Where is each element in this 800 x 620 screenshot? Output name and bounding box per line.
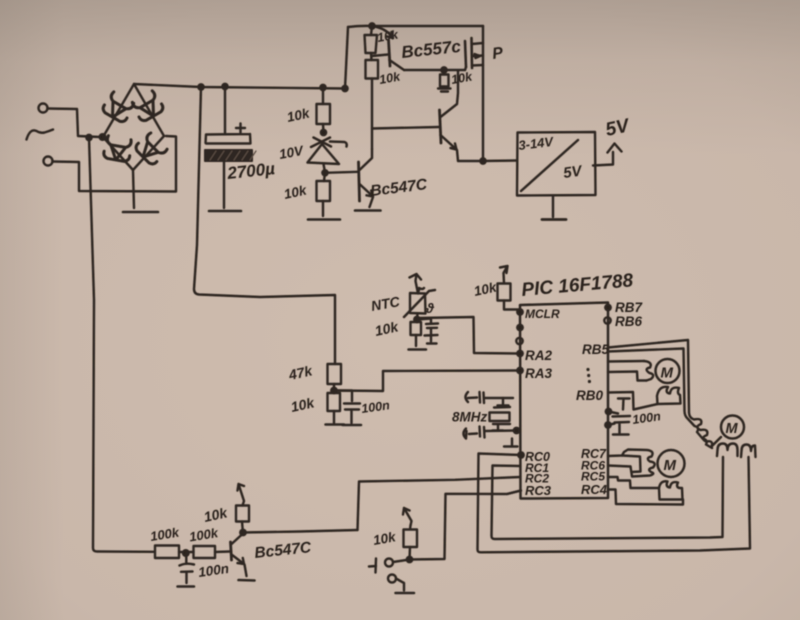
bridge diode D2 (top-right edge) bbox=[131, 90, 165, 123]
pin MCLR dot bbox=[517, 309, 522, 314]
wire terminal a2 to ground bbox=[396, 579, 404, 591]
wire up from rail x345 to BC557 rail bbox=[345, 27, 348, 89]
wire AC top to bridge left bbox=[48, 109, 101, 138]
wire Rb down long vertical bbox=[371, 79, 373, 150]
motor M2 letter bbox=[726, 421, 739, 437]
pin RA3 dot bbox=[517, 368, 522, 373]
pin label MCLR bbox=[525, 307, 560, 321]
pin label RB7 bbox=[615, 300, 643, 315]
label 10k Ra bbox=[376, 27, 400, 45]
label 10k Q4 pullup bbox=[202, 504, 229, 525]
label 100n bottom bbox=[197, 561, 230, 580]
wire 100k to Q4 base bbox=[215, 550, 230, 553]
ground bar under 100n bottom bbox=[178, 585, 195, 588]
label Bc547C bottom bbox=[254, 539, 313, 562]
svg-text:RB6: RB6 bbox=[615, 314, 642, 329]
svg-text:RB0: RB0 bbox=[576, 388, 603, 403]
capacitor 100n right plates bbox=[608, 412, 630, 434]
pin label RB0 bbox=[576, 388, 603, 403]
crystal X1 body bbox=[490, 407, 511, 424]
mosfet P channel bar bbox=[470, 38, 473, 68]
junction dot top rail at x323 bbox=[320, 85, 325, 90]
regulator U2 box 3-14V to 5V bbox=[517, 132, 596, 196]
wire RC2 to Q4 collector bbox=[358, 477, 521, 530]
capacitor C1 wire to ground bbox=[223, 161, 225, 208]
label 8MHz bbox=[452, 410, 488, 425]
wire RC6 to coil L3 bbox=[608, 466, 631, 467]
ground bar under 10k divider bbox=[326, 423, 345, 426]
resistor 10k (zener chain bottom) body bbox=[317, 181, 331, 201]
label 3-14V bbox=[518, 134, 556, 153]
wire between 100k resistors bbox=[179, 551, 194, 553]
base tap wire zener node to BC547a bbox=[325, 172, 358, 173]
wire 47k to node bbox=[333, 384, 335, 391]
motor M2 terminal bumps right bbox=[741, 445, 756, 458]
wire NTC node to RA2 bbox=[419, 317, 517, 354]
node junction bridge left vertex bbox=[100, 134, 106, 140]
label 100n right bbox=[631, 409, 662, 427]
junction dot top rail at x201 bbox=[198, 84, 203, 89]
pin label RB6 bbox=[615, 314, 642, 329]
transistor Q4 BC547C base bar bbox=[231, 542, 232, 560]
wire terminal a1 to node bbox=[393, 560, 410, 563]
wire RB5 outer loop to motor M2 bbox=[608, 340, 721, 447]
resistor 10k (NTC divider) body bbox=[411, 322, 422, 335]
svg-text:RC4: RC4 bbox=[581, 482, 608, 497]
pin label RC1 bbox=[525, 461, 549, 475]
NTC thermistor body bbox=[410, 290, 426, 314]
label 100n divider bbox=[360, 398, 391, 416]
resistor 10k Q4 pullup body bbox=[236, 506, 249, 522]
bridge rectifier diamond wires bbox=[103, 84, 164, 170]
transistor Q1 BC557 base bar bbox=[389, 40, 391, 66]
coil L1 bumps bbox=[644, 361, 653, 381]
ground bar under C1 bbox=[209, 210, 241, 213]
motor M3 letter bbox=[664, 457, 677, 474]
svg-text:RB7: RB7 bbox=[615, 300, 643, 315]
resistor 10k (47k divider) body bbox=[328, 393, 341, 411]
label Bc547C (left transistor) bbox=[369, 176, 428, 200]
label 47k bbox=[286, 362, 314, 383]
supply arrow above 10k Q4 bbox=[238, 484, 245, 506]
label NTC bbox=[370, 293, 402, 314]
wire inner loop to motor M2 bbox=[608, 349, 712, 449]
transistor Q3 base wire from x372 bbox=[372, 127, 439, 129]
transistor Q2 BC547C base bar bbox=[359, 162, 360, 201]
ground bar under 10k NTC bbox=[409, 348, 427, 351]
NTC supply arrow bbox=[410, 274, 425, 294]
pin label RC0 bbox=[525, 450, 550, 464]
capacitor C1 wire from rail bbox=[224, 87, 226, 134]
supply arrow above 10k bottom right bbox=[403, 508, 412, 526]
BC557 top rail bbox=[348, 26, 483, 27]
terminal circle a1 bbox=[385, 559, 393, 567]
label 100k R6 bbox=[149, 525, 181, 544]
wire Q4 collector to RC2 turn bbox=[243, 530, 358, 533]
resistor Ra 10k wire from rail bbox=[371, 26, 372, 35]
wire divider node to RA3 bbox=[334, 371, 517, 392]
crystal top T terminal bbox=[498, 398, 509, 406]
coil L2 bumps under M1 bbox=[657, 387, 681, 404]
pin dot left edge unconnected bbox=[517, 325, 522, 330]
label 10k zener chain bottom bbox=[283, 182, 310, 202]
junction dot right edge y411 bbox=[606, 409, 611, 414]
regulator output wire and 5V arrow bbox=[593, 144, 622, 166]
ground bar under bridge bbox=[123, 211, 158, 214]
crystal top capacitor ground hook bbox=[466, 392, 469, 402]
motor M2 circle bbox=[721, 416, 744, 439]
wire AC bottom to bridge right bbox=[53, 136, 177, 192]
transistor Q3 base bar bbox=[440, 110, 442, 143]
junction dot top rail at x345 bbox=[342, 86, 347, 91]
regulator diagonal bbox=[521, 140, 578, 191]
svg-text:ϑ: ϑ bbox=[425, 301, 435, 316]
pin label RC4 bbox=[581, 482, 608, 497]
mosfet P stubs with arrow bbox=[472, 43, 483, 66]
label 10V bbox=[278, 143, 305, 162]
zener diode wire down and node bbox=[322, 164, 327, 181]
mosfet P gate bar bbox=[465, 41, 466, 67]
motor M3 circle bbox=[658, 450, 685, 477]
transistor Q3 collector bbox=[441, 71, 459, 117]
svg-text:RA3: RA3 bbox=[525, 366, 552, 381]
capacitor C1 top plate bbox=[206, 134, 251, 144]
pin RC0 dot bbox=[518, 452, 523, 457]
junction dot right edge y425 bbox=[605, 422, 610, 427]
label 10k NTC bbox=[373, 318, 400, 339]
crystal bottom T terminal bbox=[493, 425, 504, 431]
label 100k R7 bbox=[188, 525, 220, 544]
capacitor C1 bottom plate (hatched) bbox=[205, 150, 256, 161]
resistor 10k MCLR pullup body bbox=[498, 284, 511, 301]
terminal circle a2 bbox=[388, 575, 396, 583]
junction dot between 100k resistors bbox=[183, 550, 189, 556]
transistor Q2 emitter with arrow bbox=[360, 184, 374, 207]
resistor 10k bottom right body bbox=[404, 526, 418, 548]
label Bc557c bbox=[400, 37, 462, 62]
ground bar under Q2 emitter bbox=[355, 209, 381, 212]
label 10k MCLR bbox=[473, 279, 500, 299]
transistor Q1 BC557 base wire bbox=[372, 55, 388, 57]
wire RC7 into coil L3 bbox=[608, 450, 655, 477]
motor M2 terminal bumps left bbox=[717, 444, 738, 457]
pin label RA2 bbox=[525, 348, 552, 363]
T terminal right of PIC bbox=[618, 399, 630, 410]
pin label RC5 bbox=[581, 470, 605, 484]
transistor Q3 emitter with arrow bbox=[441, 135, 484, 161]
wire node line y70 bbox=[404, 69, 465, 71]
label 10k Rb bbox=[378, 69, 402, 87]
resistor 100k R6 body bbox=[155, 546, 179, 559]
wire RC4 to coil L4 bbox=[608, 490, 683, 505]
capacitor 100n bottom stem and plates bbox=[180, 553, 195, 583]
pin label RA3 bbox=[525, 366, 552, 381]
terminal a1 tick marks bbox=[369, 559, 376, 573]
motor M1 circle bbox=[656, 359, 680, 383]
zener diode 10V cathode cross bar with hook bbox=[311, 138, 347, 148]
resistor 100k R7 body bbox=[194, 546, 216, 558]
ground bar under zener chain bbox=[308, 218, 340, 221]
label theta bbox=[425, 301, 435, 316]
bridge diode D3 (bottom-left edge) bbox=[103, 135, 133, 162]
crystal bottom capacitor hook and plates bbox=[464, 427, 517, 439]
regulator ground wire bbox=[552, 196, 554, 217]
wire MCLR pullup to pin bbox=[504, 301, 520, 310]
wire 10k bottom to node bbox=[408, 547, 411, 560]
ground bar under regulator bbox=[542, 218, 566, 221]
capacitor C1 plus sign bbox=[236, 124, 245, 133]
label P bbox=[491, 45, 504, 63]
AC terminal bottom circle bbox=[44, 157, 53, 166]
NTC wire to node bbox=[416, 314, 419, 321]
junction dot under NTC bbox=[414, 317, 419, 322]
ground bar under Q4 emitter bbox=[239, 579, 255, 582]
wire RC5 to coil L4 bbox=[608, 477, 659, 488]
pin label RB5 bbox=[582, 342, 609, 357]
label 5V inside box bbox=[562, 162, 585, 182]
vertical wire x483 rail to y161 bbox=[482, 26, 484, 161]
pin label RC2 bbox=[525, 472, 549, 486]
junction dot Q4 collector bbox=[240, 530, 245, 535]
transistor Q2 collector bbox=[360, 149, 373, 170]
transistor Q4 emitter with arrow bbox=[232, 555, 247, 577]
mosfet P gate wire down bbox=[465, 67, 466, 70]
wire to regulator input bbox=[483, 159, 517, 162]
long left wire down to 100k resistors bbox=[89, 138, 154, 552]
wire RC3 to bottom terminal node bbox=[410, 491, 521, 560]
vertical dots ellipsis bbox=[586, 368, 591, 383]
coil L3 inner spiral bbox=[622, 456, 641, 473]
label PIC 16F1788 title bbox=[521, 270, 635, 301]
resistor Rc 10k body (under y70) bbox=[440, 70, 449, 87]
junction dot BC557 rail bbox=[369, 23, 374, 28]
label 5V output bbox=[604, 115, 632, 141]
wire Ra to Rb bbox=[370, 53, 373, 60]
junction dot above zener bbox=[321, 130, 326, 135]
pin RA2 dot bbox=[517, 351, 522, 356]
svg-text:RC3: RC3 bbox=[525, 483, 552, 498]
capacitor (NTC filter) stem plates ground bbox=[417, 319, 438, 344]
wire resistor to zener bbox=[322, 124, 325, 133]
transistor Q1 collector bbox=[390, 60, 405, 70]
svg-text:RA2: RA2 bbox=[525, 348, 552, 363]
pin label RC3 bbox=[525, 483, 552, 498]
motor M1 letter bbox=[661, 365, 674, 382]
resistor 10k (zener chain top) wire bbox=[322, 88, 324, 105]
bridge bottom to ground wire bbox=[133, 170, 134, 208]
label 10k bottom right bbox=[372, 529, 398, 548]
ground bar under 100n divider bbox=[343, 424, 362, 427]
resistor Ra 10k body bbox=[365, 35, 378, 53]
crystal top capacitor plates and wire bbox=[468, 392, 513, 403]
junction dot top rail at x225 bbox=[222, 84, 227, 89]
AC tilde symbol bbox=[27, 130, 54, 140]
pin RB7 dot bbox=[605, 305, 610, 310]
svg-text:M: M bbox=[661, 365, 674, 382]
ground bar under Rc bbox=[438, 87, 451, 92]
junction dot below 47k bbox=[331, 388, 336, 393]
small ground inside left of PIC bottom bbox=[504, 439, 518, 447]
coil L4 bumps bbox=[659, 481, 683, 499]
capacitor 100n (divider) stem and plates bbox=[334, 391, 360, 424]
label 10k Rc bbox=[450, 69, 474, 87]
svg-text:8MHz: 8MHz bbox=[452, 410, 488, 425]
junction dot RA osc pin bbox=[514, 428, 519, 433]
transistor Q4 collector bbox=[231, 522, 243, 545]
ground bar under 100n right bbox=[613, 433, 629, 436]
IC U1 PIC16F1788 box bbox=[520, 303, 608, 499]
label 10k zener chain top bbox=[286, 105, 313, 125]
label 10k divider bbox=[289, 394, 316, 415]
wire RB0 to coil L2 bbox=[608, 392, 658, 410]
bridge diode D1 (top-left edge) bbox=[101, 91, 135, 124]
wire zener chain to ground bbox=[322, 201, 324, 216]
capacitor C1 value 2700u bbox=[225, 159, 276, 183]
resistor 47k wire in bbox=[328, 364, 342, 384]
MCLR pullup supply arrow bbox=[500, 266, 508, 283]
svg-text:RB5: RB5 bbox=[582, 342, 609, 357]
junction dot x483 y161 bbox=[480, 158, 485, 163]
pin label RC6 bbox=[581, 459, 605, 473]
junction dot bottom terminal node bbox=[407, 557, 412, 562]
wire from rail x201 down and right to 47k bbox=[194, 87, 335, 364]
wire RB pin3 to coil L1 bbox=[608, 360, 644, 363]
zener diode 10V triangle bbox=[308, 144, 340, 164]
svg-text:MCLR: MCLR bbox=[525, 307, 560, 321]
top rail wire bbox=[134, 84, 345, 89]
node junction on bridge left wire bbox=[86, 135, 91, 140]
wire RC0 long loop to motor M2 right bbox=[478, 454, 751, 553]
bridge diode D4 (bottom-right edge) bbox=[134, 132, 168, 166]
resistor Rb 10k body bbox=[366, 60, 379, 79]
pin RB6 open circle bbox=[604, 317, 610, 323]
ground bar under terminal a2 bbox=[396, 592, 415, 595]
wire RB pin4 to coil L1 bbox=[608, 372, 647, 381]
wire 10k divider to ground bbox=[333, 411, 335, 423]
pin label RC7 bbox=[581, 447, 607, 461]
junction dot y70 at x444 bbox=[441, 67, 446, 72]
pin open circle left edge bbox=[516, 338, 522, 344]
NTC diagonal strike bbox=[404, 290, 435, 317]
wire RC1 loop to motor M2 left bbox=[492, 457, 724, 539]
svg-text:M: M bbox=[664, 457, 677, 474]
resistor 10k (zener chain top) body bbox=[317, 104, 331, 124]
svg-text:M: M bbox=[726, 421, 739, 437]
AC terminal top circle bbox=[39, 104, 48, 113]
wire 10k NTC to ground bbox=[415, 335, 417, 346]
transistor Q1 emitter curve with arrow bbox=[372, 26, 393, 38]
